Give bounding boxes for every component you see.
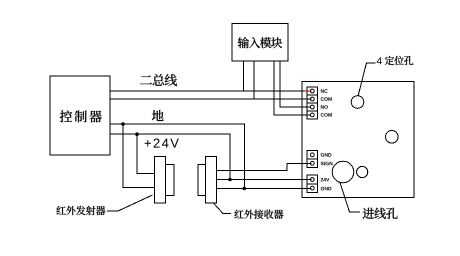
junction on +24V wire for transmitter (135, 132, 139, 136)
leader line from receiver label (213, 203, 231, 214)
label 红外接收器 (234, 210, 283, 219)
leader line to mounting hole (358, 63, 376, 96)
wire: input module pin 2 down to bus line 2 (253, 61, 255, 99)
wire: input module pin 3 down and right to terminal COM (t4) (274, 61, 311, 115)
label NO (321, 105, 328, 109)
wire: bus line 2 (controller to terminal COM t2) (110, 98, 312, 100)
label 4 定位孔 (377, 56, 414, 65)
infrared receiver lens block (198, 165, 206, 196)
cable entry hole (进线孔) (332, 161, 354, 183)
label COM (321, 97, 332, 101)
detector board outline (302, 82, 414, 198)
label 红外发射器 (56, 206, 105, 215)
junction: ground drop joins receiver wire (243, 187, 247, 191)
wire: bus line 1 (controller to terminal NC) (110, 90, 305, 92)
wire: input module pin 1 down to bus line 1 (242, 61, 244, 91)
input module box (输入模块) (232, 24, 288, 62)
wire: receiver ground to GND terminal (217, 188, 312, 190)
leader line from transmitter label (107, 195, 153, 211)
wire: receiver +24V to 24V terminal (217, 179, 312, 181)
terminal COM (t2) (307, 95, 318, 103)
wire: red segment into terminal NC (305, 90, 312, 92)
label 进线孔 (363, 208, 398, 219)
mounting hole top (351, 96, 364, 109)
label 地 (152, 110, 164, 121)
wire: ground (地) from controller, down at right to receiver GND terminal (110, 124, 244, 189)
label 二总线 (140, 74, 177, 86)
junction on ground wire for transmitter (121, 122, 125, 126)
terminal COM (t4) (307, 111, 318, 119)
label GND (321, 187, 332, 191)
wire: +24V from controller, down at right to receiver 24V terminal (110, 134, 230, 179)
terminal GND (t8) (307, 184, 318, 193)
junction: +24V drop joins receiver wire (228, 178, 232, 182)
mounting hole middle right (386, 131, 399, 144)
terminal SIGN (t6) (307, 159, 318, 168)
wire: +24V branch down to transmitter (137, 134, 155, 173)
label NC (321, 89, 328, 93)
wire: ground branch down to transmitter (123, 124, 155, 188)
infrared transmitter body (155, 157, 166, 204)
wire: receiver signal to SIGN terminal (217, 163, 312, 170)
terminal NC (t1) (307, 87, 318, 95)
leader line to cable entry hole (340, 183, 360, 213)
small hole beside cable entry (357, 166, 368, 177)
label 24V (321, 178, 330, 181)
wire: input module pin 4 down and right to terminal NO (t3) (280, 61, 311, 107)
terminal GND (t5) (307, 151, 318, 160)
infrared transmitter lens block (166, 165, 175, 196)
terminal 24V (t7) (307, 175, 318, 184)
label +24V (145, 139, 179, 148)
terminal NO (t3) (307, 103, 318, 111)
label SIGN (321, 162, 333, 166)
infrared receiver body (206, 157, 217, 204)
label GND (321, 153, 332, 157)
label COM (321, 113, 332, 117)
controller box (控制器) (50, 76, 110, 155)
